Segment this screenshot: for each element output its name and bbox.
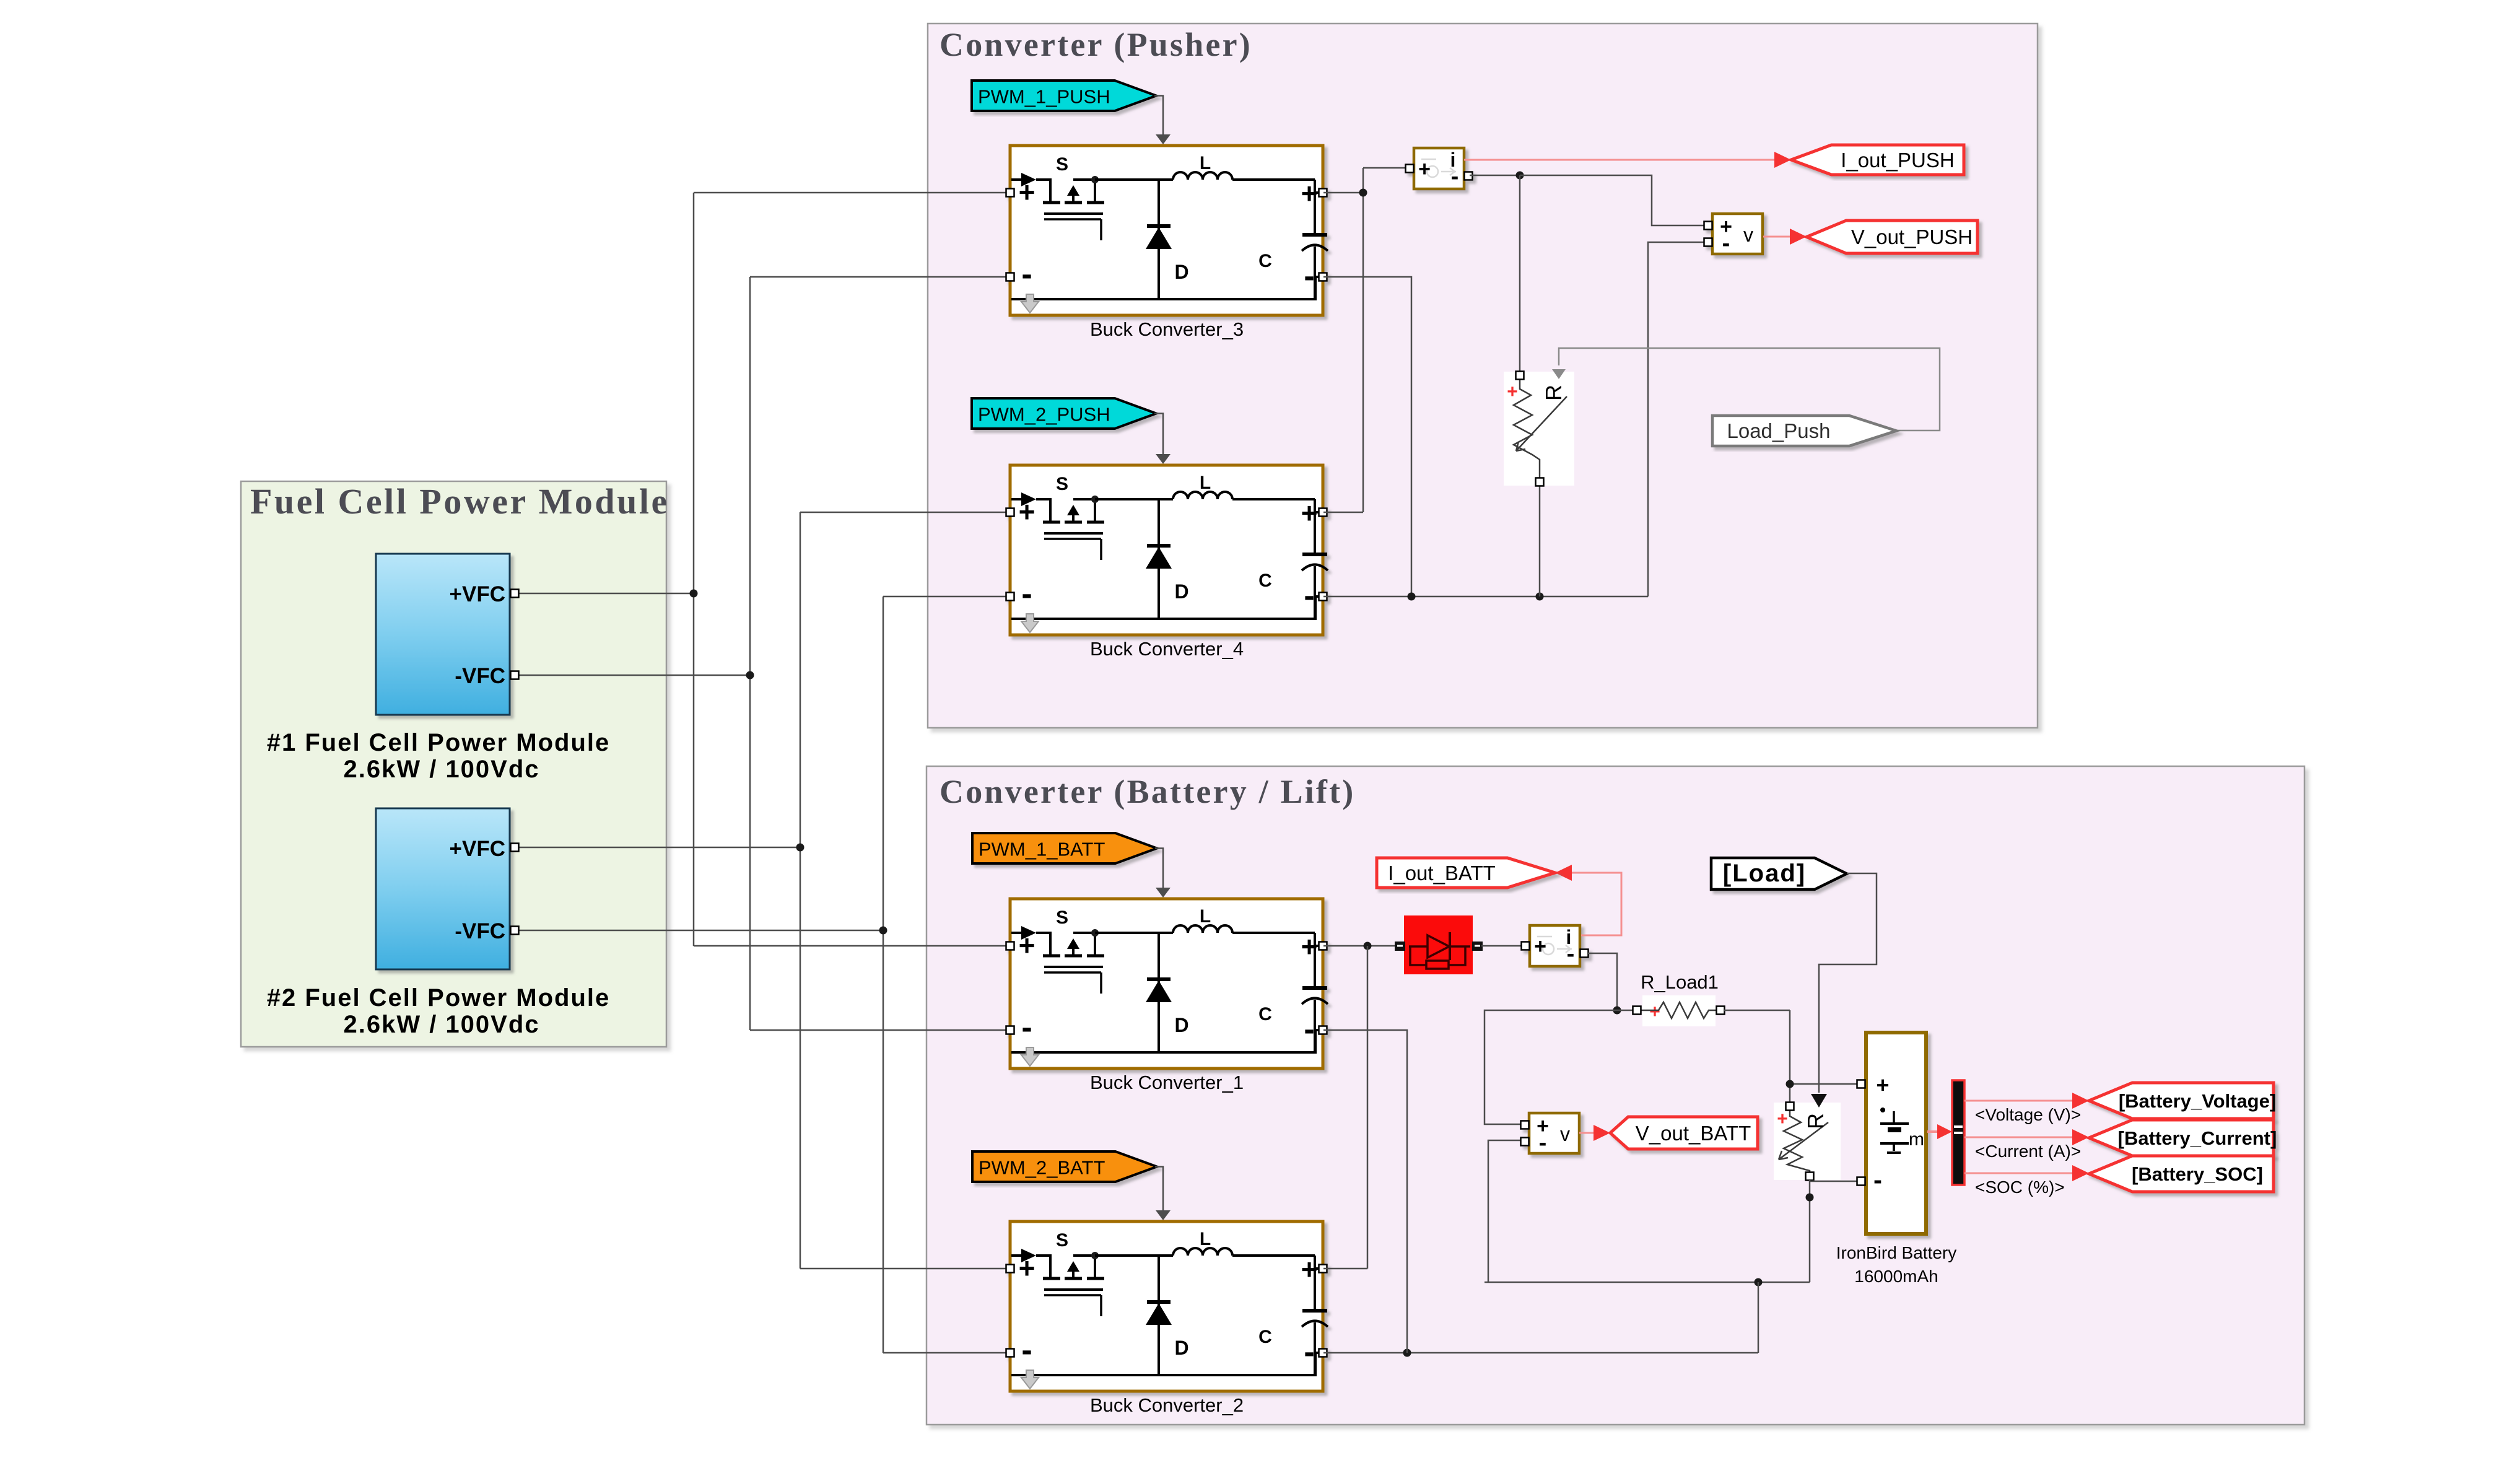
svg-text:Buck Converter_1: Buck Converter_1 [1090, 1072, 1244, 1093]
arrowhead [Battery_SOC] [2072, 1165, 2089, 1181]
port FC1 -VFC [511, 671, 519, 679]
node FC1- junction [746, 671, 754, 679]
goto-tag V_out_BATT [1610, 1117, 1758, 1149]
wire bus signal <Voltage (V)> [1964, 1100, 2074, 1102]
wire diode to I_BATT sensor [1481, 945, 1521, 947]
svg-text:2.6kW / 100Vdc: 2.6kW / 100Vdc [343, 1011, 539, 1038]
from-tag PWM_2_PUSH [972, 398, 1156, 429]
svg-text:PWM_2_BATT: PWM_2_BATT [979, 1157, 1105, 1179]
svg-text:PWM_1_PUSH: PWM_1_PUSH [978, 86, 1110, 108]
svg-text:[Load]: [Load] [1723, 860, 1806, 887]
svg-text:+: + [1507, 382, 1518, 402]
label FC2 [267, 984, 611, 1038]
svg-text:-VFC: -VFC [455, 664, 505, 688]
goto-tag I_out_PUSH [1791, 145, 1964, 175]
panel: Converter (Pusher) [928, 24, 2038, 728]
svg-text:16000mAh: 16000mAh [1854, 1267, 1938, 1286]
arrowhead PWM_2_PUSH gate [1156, 454, 1171, 464]
wire I_BATT minus out [1588, 953, 1617, 1010]
wire bus signal <SOC (%)> [1964, 1173, 2074, 1174]
wire Buck1+ output [1323, 945, 1395, 947]
wire i signal to I_out_BATT [1571, 873, 1621, 935]
port diode right (black) [1472, 942, 1483, 951]
wire Buck3- output [1323, 277, 1411, 596]
svg-text:+VFC: +VFC [450, 837, 505, 861]
node FC2- junction [879, 927, 887, 935]
wire V_BATT minus down [1488, 1140, 1520, 1282]
svg-text:PWM_1_BATT: PWM_1_BATT [979, 839, 1105, 860]
from-tag Load_Push [1712, 416, 1896, 446]
node R_Load1 junction [1613, 1007, 1621, 1015]
label IronBird Battery [1836, 1243, 1957, 1286]
wire vertical bus FC1- (Buck3- / Buck1-) [750, 277, 1006, 1030]
wire Load_Push control [1559, 348, 1940, 430]
node FC2+ junction [796, 844, 804, 852]
svg-text:<SOC (%)>: <SOC (%)> [1975, 1177, 2065, 1197]
goto-tag [Battery_Current] [2089, 1120, 2277, 1156]
subsystem Buck Converter_1 [1006, 899, 1328, 1093]
from-tag PWM_1_PUSH [972, 81, 1156, 111]
wire Buck2+ riser [1323, 946, 1367, 1269]
port R_push bottom [1536, 478, 1544, 486]
wire FC1 +VFC to junction [518, 593, 694, 595]
wire FC1 -VFC to junction [518, 675, 750, 676]
svg-text:Buck Converter_4: Buck Converter_4 [1090, 638, 1244, 660]
port FC1 +VFC [511, 590, 519, 598]
port battery - [1857, 1177, 1865, 1186]
current sensor I_BATT [1522, 925, 1589, 967]
label FC1 [267, 729, 611, 783]
svg-text:<Voltage (V)>: <Voltage (V)> [1975, 1105, 2081, 1124]
svg-text:+VFC: +VFC [450, 582, 505, 606]
port battery + [1857, 1080, 1865, 1088]
wire PWM_2_PUSH to converter gate [1154, 414, 1163, 458]
wire vertical bus FC2- (Buck4- / Buck2-) [883, 596, 1006, 1353]
variable resistor R_push [1504, 372, 1574, 486]
svg-text:Converter (Battery / Lift): Converter (Battery / Lift) [940, 773, 1355, 810]
wire PWM_1_BATT to converter gate [1155, 849, 1163, 892]
goto-tag I_out_BATT [1377, 858, 1555, 888]
ideal diode block (red) [1404, 915, 1473, 974]
svg-text:[Battery_SOC]: [Battery_SOC] [2132, 1163, 2263, 1185]
svg-text:[Battery_Current]: [Battery_Current] [2118, 1127, 2277, 1149]
svg-text:Load_Push: Load_Push [1727, 419, 1831, 442]
panel: Fuel Cell Power Module [241, 481, 669, 1047]
wire Buck3+ output [1323, 192, 1363, 194]
from-tag [Load] [1711, 858, 1847, 889]
wire junction to R_Load1 [1617, 1010, 1633, 1011]
port R_Load1 left [1633, 1007, 1641, 1015]
port FC2 +VFC [511, 844, 519, 852]
arrowhead [Battery_Current] [2072, 1129, 2089, 1145]
voltage sensor V_BATT [1521, 1113, 1580, 1156]
arrowhead [Load] control [1811, 1094, 1827, 1108]
svg-text:[Battery_Voltage]: [Battery_Voltage] [2119, 1090, 2276, 1112]
svg-text:m: m [1909, 1129, 1924, 1150]
svg-text:I_out_PUSH: I_out_PUSH [1841, 149, 1954, 172]
node bottom rail junction [1755, 1278, 1763, 1287]
wire FC2 +VFC to junction [518, 847, 800, 849]
arrowhead I_out_BATT [1555, 865, 1572, 881]
node battery minus junction [1806, 1194, 1814, 1202]
svg-text:-VFC: -VFC [455, 919, 505, 943]
svg-text:+: + [1777, 1109, 1788, 1129]
subsystem Buck Converter_4 [1006, 465, 1328, 660]
svg-text:2.6kW / 100Vdc: 2.6kW / 100Vdc [343, 756, 539, 783]
bus selector [1952, 1080, 1964, 1185]
node battery + junction [1364, 942, 1372, 950]
arrowhead V_out_BATT [1594, 1125, 1610, 1141]
wire battery m output [1927, 1130, 1937, 1133]
subsystem Buck Converter_2 [1006, 1221, 1328, 1416]
arrowhead m to bus [1937, 1124, 1952, 1139]
wire Buck4+ output riser [1323, 168, 1405, 512]
variable resistor R_batt [1774, 1103, 1841, 1180]
svg-text:#1 Fuel Cell Power Module: #1 Fuel Cell Power Module [267, 729, 611, 756]
svg-text:Converter (Pusher): Converter (Pusher) [940, 26, 1252, 63]
svg-text:Buck Converter_2: Buck Converter_2 [1090, 1394, 1244, 1416]
node rail Buck3- [1408, 593, 1416, 601]
arrowhead PWM_1_BATT gate [1156, 888, 1171, 898]
node pusher + junction [1359, 189, 1367, 197]
port R_push top [1516, 372, 1524, 380]
svg-text:R: R [1803, 1113, 1828, 1129]
node FC1+ junction [690, 590, 698, 598]
wire I_PUSH minus out [1470, 175, 1520, 177]
port FC2 -VFC [511, 927, 519, 935]
wire battery minus link [1810, 1180, 1857, 1282]
svg-text:R: R [1541, 385, 1566, 401]
wire v signal to V_out_PUSH [1763, 236, 1792, 238]
wire i signal to I_out_PUSH [1464, 159, 1776, 161]
svg-text:+: + [1876, 1072, 1889, 1098]
wire pusher minus rail [1323, 596, 1648, 598]
wire R_push bottom [1539, 486, 1541, 596]
resistor R_Load1 [1637, 995, 1720, 1026]
node pusher sense junction [1516, 172, 1524, 180]
svg-text:#2 Fuel Cell Power Module: #2 Fuel Cell Power Module [267, 984, 611, 1011]
svg-text:+: + [1649, 1002, 1660, 1022]
wire junction to V_BATT plus [1485, 1010, 1617, 1124]
fuel cell module FC2 [376, 808, 510, 969]
svg-text:I_out_BATT: I_out_BATT [1388, 862, 1496, 885]
goto-tag V_out_PUSH [1807, 221, 1977, 253]
svg-text:V_out_PUSH: V_out_PUSH [1851, 225, 1973, 248]
battery IronBird [1866, 1033, 1926, 1234]
wire [Load] to R_batt control [1819, 873, 1877, 1093]
wire Buck1- output riser [1323, 1030, 1407, 1353]
panel: Converter (Battery / Lift) [926, 766, 2304, 1425]
arrowhead PWM_1_PUSH gate [1156, 134, 1171, 144]
arrowhead V_out_PUSH [1790, 229, 1807, 245]
svg-text:Buck Converter_3: Buck Converter_3 [1090, 318, 1244, 340]
current sensor I_PUSH [1406, 148, 1473, 190]
goto-tag [Battery_SOC] [2089, 1156, 2274, 1192]
svg-text:IronBird Battery: IronBird Battery [1836, 1243, 1957, 1262]
arrowhead PWM_2_BATT gate [1156, 1210, 1171, 1220]
wire v signal to V_out_BATT [1579, 1132, 1595, 1134]
svg-text:<Current (A)>: <Current (A)> [1975, 1142, 2081, 1161]
wire PWM_2_BATT to converter gate [1155, 1167, 1163, 1215]
wire bus signal <Current (A)> [1964, 1137, 2074, 1138]
port R_batt top [1786, 1103, 1794, 1111]
port diode left (black) [1395, 942, 1405, 951]
svg-text:PWM_2_PUSH: PWM_2_PUSH [978, 404, 1110, 426]
arrowhead Load_Push control [1552, 369, 1566, 379]
wire battery bottom rail [1485, 1282, 1810, 1283]
svg-text:V_out_BATT: V_out_BATT [1636, 1122, 1751, 1145]
wire vertical bus FC1+ (Buck3+ / Buck1+) [694, 193, 1006, 946]
wire R_Load1 to battery + [1724, 1010, 1857, 1103]
node Buck1- tie [1403, 1349, 1411, 1357]
wire vertical bus FC2+ (Buck4+ / Buck2+) [800, 512, 1006, 1269]
from-tag PWM_2_BATT [972, 1151, 1157, 1182]
svg-text:Fuel Cell Power Module: Fuel Cell Power Module [250, 481, 669, 522]
port R_batt bottom [1806, 1173, 1814, 1181]
voltage sensor V_PUSH [1704, 214, 1763, 256]
wire rail to Buck2- [1323, 1282, 1758, 1353]
wire FC2 -VFC to junction [518, 930, 883, 932]
from-tag PWM_1_BATT [972, 833, 1157, 863]
wire to R_push top [1519, 175, 1521, 372]
subsystem Buck Converter_3 [1006, 146, 1328, 340]
arrowhead [Battery_Voltage] [2072, 1093, 2089, 1109]
svg-text:R_Load1: R_Load1 [1641, 971, 1719, 993]
wire PWM_1_PUSH to converter gate [1154, 96, 1163, 139]
arrowhead I_out_PUSH [1774, 152, 1791, 168]
wire to V_PUSH plus [1520, 175, 1704, 225]
node rail R_push [1536, 593, 1544, 601]
port R_Load1 right [1717, 1007, 1725, 1015]
svg-text:-: - [1873, 1165, 1882, 1194]
node battery plus junction [1786, 1080, 1794, 1088]
wire V_PUSH minus [1648, 242, 1704, 596]
fuel cell module FC1 [376, 554, 510, 715]
goto-tag [Battery_Voltage] [2089, 1083, 2276, 1119]
